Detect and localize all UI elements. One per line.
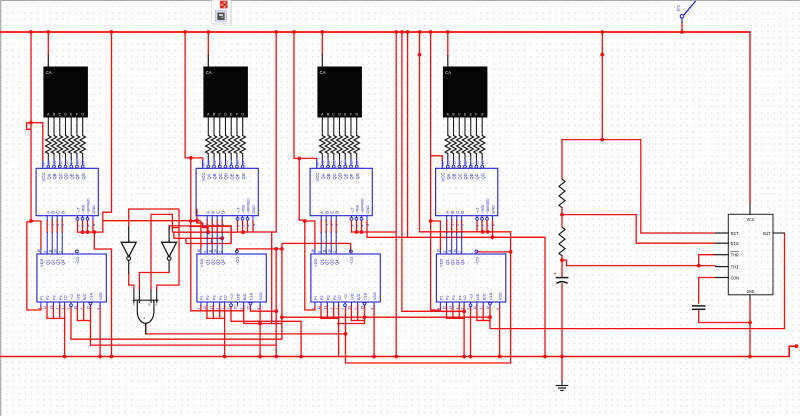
svg-text:QA: QA — [206, 173, 211, 179]
svg-text:DIS: DIS — [731, 241, 740, 247]
svg-text:A: A — [128, 238, 130, 242]
svg-text:3: 3 — [76, 225, 80, 227]
svg-text:8: 8 — [366, 224, 370, 226]
svg-text:GND: GND — [365, 205, 370, 214]
svg-text:VDD: VDD — [313, 258, 318, 267]
resistor R1a — [46, 136, 51, 154]
svg-text:9: 9 — [70, 163, 74, 165]
resistor R2c — [217, 136, 222, 154]
wire counter4 preset collector — [446, 306, 448, 319]
svg-text:~CI: ~CI — [470, 294, 474, 300]
svg-text:1P2: 1P2 — [677, 5, 681, 11]
resistor R2b — [211, 136, 216, 154]
wire counter4 CI drop — [470, 307, 472, 357]
svg-text:13: 13 — [207, 161, 211, 165]
svg-text:10: 10 — [74, 306, 78, 310]
svg-text:10: 10 — [234, 306, 238, 310]
svg-text:VCC: VCC — [315, 173, 320, 182]
svg-text:8: 8 — [496, 308, 500, 310]
svg-text:P3: P3 — [452, 295, 456, 300]
wire inverter U5 input net — [129, 209, 179, 227]
wire channel line 232 — [172, 231, 237, 233]
wire decoder1 BCD lines — [46, 220, 48, 232]
svg-text:12: 12 — [53, 161, 57, 165]
wire R1 top lead — [561, 140, 563, 180]
svg-text:1: 1 — [335, 308, 339, 310]
resistor R1b — [51, 136, 56, 154]
svg-text:4: 4 — [486, 225, 490, 227]
wire 555 GND drop — [749, 299, 751, 357]
svg-text:15: 15 — [236, 161, 240, 165]
svg-text:4: 4 — [37, 308, 41, 310]
svg-text:~CO: ~CO — [235, 257, 240, 265]
wire col2 trunk — [185, 32, 244, 311]
svg-text:6: 6 — [203, 251, 207, 253]
svg-text:CLK: CLK — [90, 292, 94, 300]
AND gate U11 4-input — [134, 299, 158, 301]
svg-text:8: 8 — [96, 308, 100, 310]
display DS3 seven-segment — [317, 67, 362, 118]
svg-text:G: G — [241, 112, 244, 116]
display DS2 seven-segment — [203, 67, 248, 118]
svg-text:QA: QA — [446, 173, 451, 179]
wire channel line 243.5 — [186, 243, 231, 245]
svg-text:8: 8 — [92, 224, 96, 226]
wire electrolytic cap to ground — [561, 284, 563, 381]
sheet border left — [0, 0, 1, 416]
svg-text:CA: CA — [445, 70, 451, 75]
wire TRI net — [562, 260, 716, 266]
svg-text:6: 6 — [221, 224, 225, 226]
wire counter4 VSS drop — [499, 306, 501, 357]
wire col1 trunk jog — [27, 123, 31, 130]
svg-text:THR: THR — [731, 253, 740, 259]
svg-text:4: 4 — [197, 308, 201, 310]
resistor R29 — [559, 179, 565, 208]
wire inverter U6 input net — [169, 226, 231, 244]
wire col2-col3 parallel drop — [271, 232, 273, 324]
svg-text:11: 11 — [208, 249, 212, 253]
svg-text:D: D — [334, 211, 339, 214]
svg-text:13: 13 — [210, 306, 214, 310]
svg-text:9: 9 — [354, 308, 358, 310]
wire counter1 UD BD ties — [76, 306, 78, 321]
svg-text:P2: P2 — [46, 295, 50, 300]
svg-text:F: F — [76, 112, 78, 116]
resistor R2d — [223, 136, 228, 154]
wire decoder1 GND drop — [93, 220, 96, 232]
svg-text:8: 8 — [256, 308, 260, 310]
decoder IC U1 7447 — [36, 168, 98, 215]
wire 555 VCC drop from bus — [749, 32, 751, 205]
svg-text:F: F — [475, 112, 477, 116]
wire trunk col3-col4 c — [408, 32, 545, 237]
wire counter1 preset collector — [46, 306, 48, 319]
toolbar panel — [212, 0, 231, 24]
svg-text:VDD: VDD — [438, 258, 443, 267]
svg-text:D: D — [60, 211, 65, 214]
wire counter2 CI tie — [231, 307, 301, 357]
svg-text:QA: QA — [46, 173, 51, 179]
wire bottom mid bus to 555 OUT — [490, 233, 785, 329]
wire col3 counter VDD feed — [305, 221, 315, 249]
svg-text:A: A — [155, 302, 157, 306]
wire counter3 CO to channel — [282, 243, 351, 252]
svg-text:QF: QF — [75, 173, 80, 179]
wire decoder3 blanking collector — [351, 220, 353, 232]
inverter U10 NOT gate — [168, 227, 170, 242]
svg-text:CA: CA — [206, 70, 212, 75]
svg-text:P3: P3 — [213, 295, 217, 300]
svg-text:1: 1 — [451, 224, 455, 226]
svg-text:QA: QA — [320, 173, 325, 179]
svg-text:CLK: CLK — [250, 292, 254, 300]
svg-text:14: 14 — [241, 161, 245, 165]
wire inverter U5 output to AND input — [129, 273, 134, 290]
wire counter2 preset collector — [206, 306, 208, 319]
svg-text:3: 3 — [330, 308, 334, 310]
svg-text:11: 11 — [219, 161, 223, 165]
svg-text:~CO: ~CO — [474, 257, 479, 265]
svg-text:10: 10 — [338, 161, 342, 165]
svg-text:QF: QF — [475, 173, 480, 179]
decoder IC U3 7447 — [310, 168, 372, 215]
resistor R2f — [234, 136, 239, 154]
svg-text:14: 14 — [213, 249, 217, 253]
svg-text:F: F — [236, 112, 238, 116]
resistor R3d — [337, 136, 342, 154]
svg-text:5: 5 — [341, 308, 345, 310]
svg-text:5: 5 — [481, 225, 485, 227]
svg-text:9: 9 — [344, 163, 348, 165]
resistor R1c — [57, 136, 62, 154]
wire CON net — [699, 278, 716, 304]
svg-text:13: 13 — [324, 306, 328, 310]
svg-text:VCC: VCC — [201, 173, 206, 182]
svg-text:U/D: U/D — [237, 293, 241, 300]
switch J1 SPST — [680, 14, 684, 18]
svg-text:GND: GND — [91, 205, 96, 214]
wire inverter U6 output to AND input — [139, 271, 169, 290]
wire counter1 CI from CO2 — [71, 243, 282, 339]
svg-text:5: 5 — [227, 308, 231, 310]
svg-text:11: 11 — [448, 249, 452, 253]
svg-text:1: 1 — [460, 308, 464, 310]
wire counter3 CI from CO4 — [346, 250, 511, 363]
svg-text:G: G — [81, 112, 84, 116]
wire AND gate output net — [146, 323, 346, 334]
svg-text:16: 16 — [311, 249, 315, 253]
svg-text:7: 7 — [206, 224, 210, 226]
wire THR net — [699, 255, 716, 266]
wire counter3 UD BD ties — [350, 306, 352, 321]
resistor R1e — [69, 136, 74, 154]
toolbar icon selected chip — [215, 11, 226, 22]
svg-text:QD: QD — [463, 173, 468, 179]
resistor R3c — [331, 136, 336, 154]
svg-text:16: 16 — [42, 162, 46, 166]
wire trunk col1-col2 lower — [94, 232, 111, 356]
wire decoder4 GND drop — [493, 220, 546, 237]
svg-text:P2: P2 — [206, 295, 210, 300]
svg-text:P4: P4 — [458, 295, 462, 300]
wire counter2 CLK to trunk — [251, 306, 277, 312]
svg-text:VCC: VCC — [41, 173, 46, 182]
svg-text:15: 15 — [76, 161, 80, 165]
svg-text:U/D: U/D — [476, 293, 480, 300]
wire counter4 UD BD ties — [476, 306, 478, 321]
svg-text:QC: QC — [218, 173, 223, 179]
svg-text:11: 11 — [48, 249, 52, 253]
svg-text:QE: QE — [469, 173, 474, 179]
svg-text:P1: P1 — [200, 295, 204, 300]
svg-text:14: 14 — [355, 161, 359, 165]
wire channel stub 186 — [185, 238, 187, 243]
wire VCC top bus — [0, 31, 750, 33]
svg-text:15: 15 — [247, 306, 251, 310]
svg-text:~CI: ~CI — [70, 294, 74, 300]
wire counter2 VSS drop — [259, 306, 261, 357]
svg-text:11: 11 — [333, 161, 337, 165]
svg-text:2: 2 — [332, 251, 336, 253]
wire decoder3 GND drop — [367, 220, 408, 237]
svg-text:10: 10 — [64, 161, 68, 165]
svg-text:7: 7 — [320, 224, 324, 226]
resistor R4c — [457, 136, 462, 154]
svg-text:GND: GND — [251, 205, 256, 214]
svg-text:11: 11 — [458, 161, 462, 165]
wire R2 bottom lead — [561, 256, 563, 277]
resistor R2a — [206, 136, 211, 154]
resistor R2e — [229, 136, 234, 154]
wire col3 decoder VCC feed — [299, 158, 317, 161]
svg-text:13: 13 — [321, 161, 325, 165]
svg-text:9: 9 — [230, 163, 234, 165]
svg-text:Q4: Q4 — [334, 259, 339, 265]
svg-text:2: 2 — [216, 224, 220, 226]
svg-text:~CI: ~CI — [230, 294, 234, 300]
svg-text:~BI/RBO: ~BI/RBO — [86, 198, 91, 213]
resistor R1g — [80, 136, 85, 154]
svg-text:QB: QB — [212, 173, 217, 179]
decoder IC U2 7447 — [196, 168, 258, 215]
wire AND input A net — [157, 209, 179, 290]
wire col3 trunk — [294, 32, 315, 310]
svg-text:P2: P2 — [446, 295, 450, 300]
svg-text:QG: QG — [241, 173, 246, 180]
wire counter2 CO feed — [237, 249, 282, 251]
resistor R4f — [474, 136, 479, 154]
svg-text:G: G — [355, 112, 358, 116]
wire col4 blanking drop — [510, 232, 512, 252]
svg-text:~CO: ~CO — [75, 257, 80, 265]
svg-text:14: 14 — [327, 249, 331, 253]
capacitor C2 — [693, 305, 705, 307]
svg-text:CA: CA — [320, 70, 326, 75]
svg-text:Q4: Q4 — [460, 259, 465, 265]
svg-text:13: 13 — [47, 161, 51, 165]
svg-text:QE: QE — [343, 173, 348, 179]
wire decoder4 BCD lines — [446, 220, 448, 232]
resistor R1d — [63, 136, 68, 154]
svg-text:8: 8 — [252, 224, 256, 226]
svg-text:CLK: CLK — [489, 292, 493, 300]
svg-text:P4: P4 — [333, 295, 337, 300]
svg-text:7: 7 — [446, 224, 450, 226]
svg-text:LD: LD — [338, 295, 342, 300]
svg-text:~BI/RBO: ~BI/RBO — [485, 198, 490, 213]
svg-text:1: 1 — [221, 308, 225, 310]
svg-text:CON: CON — [731, 275, 740, 281]
counter IC U7 4029 — [311, 254, 380, 302]
svg-text:10: 10 — [464, 161, 468, 165]
wire decoder4 blanking collector — [476, 220, 478, 231]
svg-text:12: 12 — [443, 306, 447, 310]
resistor R4e — [468, 136, 473, 154]
svg-text:QD: QD — [224, 173, 229, 179]
wire col4 gnd trunk — [544, 237, 546, 356]
svg-text:9: 9 — [470, 163, 474, 165]
svg-text:F: F — [350, 112, 352, 116]
svg-text:2: 2 — [218, 251, 222, 253]
wire channel staircase — [197, 221, 208, 233]
wire channel above counter2 — [189, 226, 231, 243]
resistor R3g — [354, 136, 359, 154]
resistor R4b — [451, 136, 456, 154]
svg-text:14: 14 — [481, 161, 485, 165]
resistor R4g — [479, 136, 484, 154]
svg-text:5: 5 — [355, 225, 359, 227]
svg-text:~CO: ~CO — [349, 257, 354, 265]
svg-text:3: 3 — [56, 308, 60, 310]
resistor R3e — [343, 136, 348, 154]
wire R1-R2 junction lead — [561, 208, 563, 228]
wire gate channel net a — [151, 214, 172, 290]
svg-text:GND: GND — [747, 290, 755, 295]
wire trunk col1-col2 — [103, 32, 112, 232]
wire display2 CA drop — [207, 32, 209, 55]
svg-text:5: 5 — [67, 308, 71, 310]
svg-text:~CI: ~CI — [344, 294, 348, 300]
wire col1 counter VDD feed — [31, 221, 41, 249]
svg-text:QB: QB — [452, 173, 457, 179]
svg-text:12: 12 — [327, 161, 331, 165]
svg-text:B/D: B/D — [83, 293, 87, 300]
resistor R3b — [325, 136, 330, 154]
svg-text:~BI/RBO: ~BI/RBO — [246, 198, 251, 213]
svg-text:1: 1 — [211, 224, 215, 226]
svg-text:4: 4 — [360, 225, 364, 227]
svg-text:G: G — [481, 112, 484, 116]
svg-text:13: 13 — [50, 306, 54, 310]
wire channel line 221 — [103, 220, 197, 222]
counter IC U8 4029 — [436, 254, 505, 302]
inverter U9 NOT gate — [128, 227, 130, 242]
wire trunk col3-col4 a — [395, 32, 397, 357]
wire RST net — [641, 140, 716, 233]
svg-text:LD: LD — [224, 295, 228, 300]
svg-text:P1: P1 — [440, 295, 444, 300]
svg-text:7: 7 — [46, 224, 50, 226]
svg-text:P1: P1 — [314, 295, 318, 300]
svg-text:VSS: VSS — [373, 292, 377, 300]
svg-text:VSS: VSS — [259, 292, 263, 300]
wire display4 CA drop — [447, 32, 449, 55]
svg-text:6: 6 — [443, 251, 447, 253]
wire counter3 CLK stub — [364, 306, 366, 318]
svg-text:QD: QD — [64, 173, 69, 179]
svg-text:QF: QF — [235, 173, 240, 179]
counter IC U5 4029 — [37, 254, 106, 302]
svg-text:14: 14 — [81, 161, 85, 165]
svg-text:12: 12 — [43, 306, 47, 310]
svg-text:15: 15 — [350, 161, 354, 165]
wire col4 counter VDD feed — [431, 221, 441, 249]
svg-text:3: 3 — [455, 308, 459, 310]
svg-text:2: 2 — [330, 224, 334, 226]
wire channel stub 227.6 — [172, 227, 179, 229]
svg-text:9: 9 — [80, 308, 84, 310]
svg-text:15: 15 — [361, 306, 365, 310]
svg-text:16: 16 — [437, 249, 441, 253]
svg-text:P3: P3 — [53, 295, 57, 300]
decoder IC U4 7447 — [436, 168, 498, 215]
sheet border top — [0, 0, 800, 1]
wire clock row to counters — [282, 317, 490, 328]
wire decoder2 blanking collector — [237, 220, 239, 232]
svg-text:D: D — [460, 211, 465, 214]
resistor R3f — [348, 136, 353, 154]
svg-text:P2: P2 — [320, 295, 324, 300]
svg-text:16: 16 — [37, 249, 41, 253]
svg-text:13: 13 — [447, 161, 451, 165]
svg-text:P4: P4 — [59, 295, 63, 300]
wire channel stub 211.7 — [211, 238, 213, 243]
svg-text:16: 16 — [441, 162, 445, 166]
svg-text:CA: CA — [46, 70, 52, 75]
svg-text:4: 4 — [246, 225, 250, 227]
wire channel line 238 — [174, 237, 222, 239]
svg-text:D: D — [220, 211, 225, 214]
svg-text:QB: QB — [326, 173, 331, 179]
svg-text:LD: LD — [64, 295, 68, 300]
svg-text:P1: P1 — [40, 295, 44, 300]
svg-text:TRI: TRI — [731, 265, 740, 271]
svg-text:14: 14 — [453, 249, 457, 253]
svg-text:OUT: OUT — [763, 231, 772, 237]
resistor R3a — [320, 136, 325, 154]
svg-text:RST: RST — [731, 231, 740, 237]
resistor R2g — [240, 136, 245, 154]
ground symbol — [561, 381, 563, 386]
wire decoder1 blanking collector — [77, 220, 79, 232]
wire channel stub 196.9 — [196, 209, 198, 221]
svg-text:4: 4 — [437, 308, 441, 310]
svg-text:Q4: Q4 — [220, 259, 225, 265]
wire col2 decoder VCC feed — [191, 158, 203, 161]
svg-text:A: A — [168, 238, 170, 242]
wire counter1 VSS drop — [99, 306, 101, 357]
svg-text:16: 16 — [202, 162, 206, 166]
svg-text:B/D: B/D — [482, 293, 486, 300]
op-amp U12 555 timer — [728, 214, 773, 294]
wire display3 CA drop — [321, 32, 323, 55]
wire trunk col3-col4 b — [402, 32, 464, 311]
svg-text:QE: QE — [229, 173, 234, 179]
wire bottom ground bus — [0, 346, 797, 356]
svg-text:~BI/RBO: ~BI/RBO — [360, 198, 365, 213]
svg-text:6: 6 — [61, 224, 65, 226]
